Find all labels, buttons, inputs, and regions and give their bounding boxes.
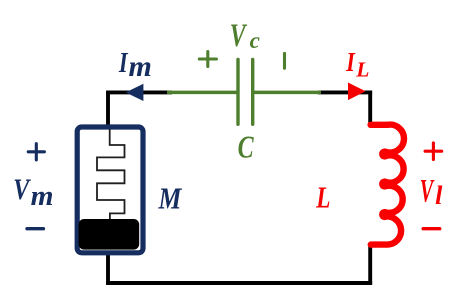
plus sign of V_m (28, 144, 44, 160)
svg-text:L: L (315, 181, 330, 215)
svg-text:M: M (158, 182, 183, 216)
plus sign of V_c (199, 52, 216, 67)
label L (315, 181, 330, 215)
label I_m (118, 48, 129, 79)
memristor M body (77, 127, 143, 253)
minus sign of V_l (423, 227, 440, 230)
memristor M zigzag element (97, 129, 125, 221)
label V_l (420, 172, 435, 208)
svg-text:c: c (250, 28, 260, 53)
label C (238, 131, 255, 166)
svg-text:L: L (355, 57, 369, 81)
svg-text:I: I (118, 48, 129, 79)
wire bottom (106, 281, 372, 285)
svg-text:I: I (345, 48, 356, 78)
label M (158, 182, 183, 216)
current arrow I_L (points right) (348, 83, 366, 101)
svg-text:V: V (13, 173, 31, 206)
wire left vertical (106, 91, 110, 127)
svg-text:l: l (435, 181, 443, 210)
minus sign of V_m (27, 227, 43, 230)
wire right vertical upper (368, 91, 372, 124)
wire capacitor left lead (green) (167, 91, 237, 95)
plus sign of V_l (425, 143, 442, 160)
minus sign of V_c (vertical bar) (283, 53, 286, 68)
inductor L coil (371, 125, 404, 245)
label I_L (345, 48, 356, 78)
svg-text:V: V (420, 172, 435, 208)
wire capacitor right lead (green) (254, 91, 321, 95)
wire top-right segment (318, 90, 372, 94)
wire top-left segment (106, 90, 172, 94)
capacitor C plates (238, 60, 253, 125)
label V_c (230, 17, 248, 54)
svg-text:m: m (31, 181, 54, 212)
label V_m (13, 173, 31, 206)
wire memristor bottom stub (106, 251, 110, 285)
svg-text:C: C (238, 131, 255, 166)
current arrow I_m (points left) (126, 84, 144, 101)
svg-text:V: V (230, 17, 248, 54)
wire right vertical lower (368, 244, 372, 285)
svg-text:m: m (129, 50, 152, 83)
memristor M doped region (black) (79, 219, 140, 250)
